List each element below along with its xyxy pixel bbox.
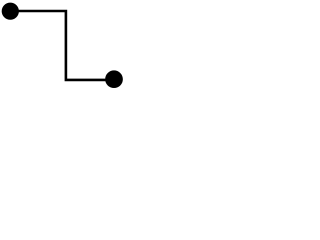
wire <box>10 11 113 80</box>
node A <box>2 3 19 20</box>
node B <box>105 70 123 88</box>
